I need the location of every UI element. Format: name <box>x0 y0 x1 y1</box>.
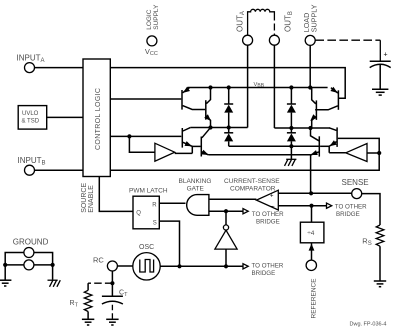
wire right output node B <box>274 127 329 129</box>
svg-text:COMPARATOR: COMPARATOR <box>230 186 276 193</box>
svg-text:+: + <box>384 52 388 59</box>
svg-text:GATE: GATE <box>187 186 205 193</box>
wire left output node A <box>190 127 247 129</box>
svg-text:& TSD: & TSD <box>22 118 40 124</box>
block CONTROL LOGIC U1 <box>83 59 110 177</box>
transistor Q7 (right sink driver NPN) <box>329 127 337 152</box>
wire comparator minus input <box>278 205 326 207</box>
junction ground left <box>3 263 7 267</box>
terminal REFERENCE <box>306 260 316 270</box>
svg-text:PWM LATCH: PWM LATCH <box>129 188 168 195</box>
junction inverter input <box>224 264 228 268</box>
label LOGIC SUPPLY <box>146 4 160 30</box>
svg-text:CONTROL LOGIC: CONTROL LOGIC <box>95 88 102 150</box>
ground symbol right (chassis hatched) <box>48 280 61 287</box>
svg-text:÷4: ÷4 <box>307 230 315 237</box>
transistor Q8 (right sink output NPN) <box>310 128 319 193</box>
buffer U3 (right sink driver buffer) <box>346 144 367 162</box>
label SOURCE ENABLE rotated <box>81 183 95 213</box>
oscillator U7 <box>133 253 160 280</box>
label TO OTHER BRIDGE (osc) <box>252 263 284 278</box>
diode D3 (right upper flyback) <box>287 88 296 129</box>
junction node B diode <box>289 126 293 130</box>
ground symbol left (earth) <box>0 280 11 286</box>
svg-text:BRIDGE: BRIDGE <box>252 270 276 277</box>
transistor Q1 (left source driver PNP) <box>182 87 205 110</box>
arrow to other bridge (osc) <box>243 264 248 269</box>
wire UVLO to control logic <box>47 116 83 118</box>
gate U5 blanking AND (left facing) <box>187 195 209 216</box>
wire left sense line <box>208 154 310 156</box>
terminal INPUT A <box>25 63 35 73</box>
terminal VCC <box>147 36 157 46</box>
arrow to other bridge (blanking) <box>243 209 248 214</box>
diode D1 (left upper flyback) <box>224 88 233 128</box>
svg-text:+: + <box>270 194 274 200</box>
wire source enable to PWM latch Q <box>99 177 133 212</box>
svg-text:BRIDGE: BRIDGE <box>336 211 360 218</box>
wire OUT A vertical <box>247 45 249 127</box>
svg-text:−: − <box>271 204 275 211</box>
wire down to cap <box>379 40 381 61</box>
svg-text:SUPPLY: SUPPLY <box>153 4 160 30</box>
comparator U8 (left facing) <box>256 190 278 210</box>
svg-text:TO OTHER: TO OTHER <box>335 204 367 211</box>
wire buffer output <box>175 152 193 154</box>
junction diode ground <box>289 144 293 148</box>
junction VBB-load supply <box>308 85 312 89</box>
svg-text:ENABLE: ENABLE <box>88 185 95 213</box>
ground symbol CT (earth) <box>106 319 118 325</box>
transistor Q5 (right source driver PNP) <box>315 87 338 110</box>
wire OUT B vertical <box>273 45 275 128</box>
label LOAD SUPPLY rotated <box>302 4 319 32</box>
label BLANKING GATE <box>179 178 212 193</box>
wire INPUT A to control logic <box>35 67 83 69</box>
label TO OTHER BRIDGE (blanking) <box>252 211 284 226</box>
wire gate input from inverter <box>209 210 243 212</box>
resistor RT <box>84 290 92 311</box>
capacitor CT <box>102 296 123 304</box>
svg-text:Dwg. FP-036-4: Dwg. FP-036-4 <box>350 322 387 328</box>
diode D2 (left lower flyback) <box>224 128 233 147</box>
svg-text:RC: RC <box>93 255 104 264</box>
wire comparator plus input / sense line <box>278 192 352 194</box>
capacitor C filter (polarized) <box>370 61 391 89</box>
wire control base line to Q3 and buffer tap <box>110 135 181 137</box>
wire control top output (phase 1) to right source base <box>110 68 345 99</box>
svg-text:SENSE: SENSE <box>342 178 369 187</box>
label TO OTHER BRIDGE (minus) <box>335 204 367 219</box>
junction inverter tap <box>224 209 228 213</box>
svg-text:SUPPLY: SUPPLY <box>309 4 318 32</box>
junction VBB-diode right <box>289 85 293 89</box>
wire control phase 2 line to Q7 base <box>110 138 379 170</box>
junction VBB-Q2 <box>208 85 212 89</box>
label INPUT_A <box>17 54 45 65</box>
wire latch R input from blanking gate <box>159 202 185 204</box>
junction node B Q6 <box>308 126 312 130</box>
terminal RC <box>107 261 117 271</box>
terminal GROUND 2 <box>24 260 34 270</box>
junction divider tap <box>309 204 313 208</box>
wire lower diode anode line <box>229 145 319 147</box>
ground symbol bridge (chassis hatched) <box>285 159 297 166</box>
svg-text:TO OTHER: TO OTHER <box>252 211 284 218</box>
resistor RS <box>376 225 384 246</box>
svg-text:S: S <box>153 220 157 226</box>
junction node A center <box>208 125 212 129</box>
svg-text:TO OTHER: TO OTHER <box>252 263 284 270</box>
svg-text:BLANKING: BLANKING <box>179 178 212 185</box>
dashed wire LOAD SUPPLY to filter cap <box>315 39 380 41</box>
transistor Q3 (left sink driver NPN) <box>182 128 192 154</box>
inverter U6 (blanking inverter) <box>215 211 237 266</box>
svg-text:LOGIC: LOGIC <box>146 9 153 30</box>
svg-text:R: R <box>152 203 157 209</box>
terminal OUT A <box>243 35 253 45</box>
wire buffer output right <box>329 152 346 154</box>
diode D4 (right lower flyback) <box>287 128 296 146</box>
transistor Q4 (left sink output NPN) <box>201 128 210 156</box>
dashed wire to RT <box>88 282 112 284</box>
svg-text:GROUND: GROUND <box>13 237 49 246</box>
wire SENSE to RS <box>362 194 380 225</box>
wire LOAD SUPPLY down to VBB rail <box>309 46 311 88</box>
label CURRENT-SENSE COMPARATOR <box>224 178 280 193</box>
block PWM latch U4 <box>133 196 159 229</box>
wire Q7 emitter to Q8 base <box>320 145 329 147</box>
wire ground terminals right <box>34 253 53 280</box>
wire RS bottom <box>379 246 381 280</box>
wire Q3 emitter to Q4 base <box>192 145 200 147</box>
ground symbol cap (earth) <box>372 89 388 95</box>
terminal OUT B <box>269 35 279 45</box>
wire RT bottom <box>87 312 89 319</box>
terminal INPUT B <box>25 165 35 175</box>
ground symbol RT (earth) <box>82 319 94 325</box>
terminal GROUND 1 <box>24 248 34 258</box>
junction right buffer tap <box>377 151 381 155</box>
junction VBB-diode left <box>227 85 231 89</box>
load winding coil between OUT A and OUT B <box>248 9 275 35</box>
svg-text:BRIDGE: BRIDGE <box>256 219 280 226</box>
wire INPUT B to control logic <box>35 169 83 171</box>
wire RC to OSC <box>118 265 133 267</box>
transistor Q6 (right source output NPN) <box>310 88 317 128</box>
wire VBB rail <box>188 87 328 89</box>
block divide-by-4 U9 <box>300 222 324 243</box>
svg-text:UVLO: UVLO <box>22 111 39 117</box>
wire buffer input <box>129 136 155 152</box>
svg-text:Q: Q <box>136 211 141 217</box>
ground symbol RS (earth) <box>374 281 386 287</box>
wire reference to divider with arrow <box>309 243 315 260</box>
junction sense-comparator <box>309 191 313 195</box>
wire RT top <box>87 283 89 290</box>
wire gate input from comparator output <box>209 198 257 200</box>
wire RC down <box>111 271 113 296</box>
wire ground terminals left <box>5 253 24 280</box>
svg-text:CURRENT-SENSE: CURRENT-SENSE <box>224 178 280 185</box>
transistor Q2 (left source output NPN) <box>204 88 211 128</box>
wire latch S input from oscillator <box>159 221 179 266</box>
wire buffer input right <box>367 152 379 154</box>
label INPUT_B <box>18 156 46 167</box>
terminal SENSE <box>352 189 362 199</box>
buffer U2 (left sink driver buffer) <box>155 143 175 161</box>
arrow to other bridge (minus) <box>327 203 332 208</box>
wire OSC to blanking line <box>160 265 243 267</box>
block UVLO & TSD <box>18 106 47 130</box>
svg-text:OSC: OSC <box>139 244 154 251</box>
wire control base line to Q1 <box>110 98 181 100</box>
terminal LOAD SUPPLY <box>305 35 315 45</box>
junction S line <box>177 264 181 268</box>
wire diode ground stub <box>290 146 292 159</box>
junction node A diode <box>227 125 231 129</box>
junction ground right <box>51 263 55 267</box>
junction RT tap <box>110 281 114 285</box>
dashed wire CT to ground <box>111 305 113 319</box>
junction buffer tap <box>127 134 131 138</box>
svg-text:REFERENCE: REFERENCE <box>310 278 317 319</box>
wire divider to minus line <box>311 206 313 223</box>
svg-text:SOURCE: SOURCE <box>81 183 88 213</box>
